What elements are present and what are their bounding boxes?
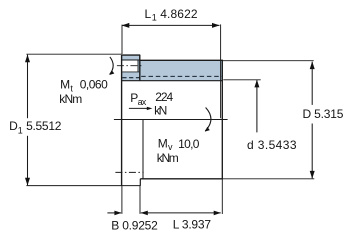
svg-text:kNm: kNm (157, 151, 179, 165)
svg-text:d 3.5433: d 3.5433 (247, 138, 297, 152)
svg-text:M: M (60, 78, 70, 92)
svg-text:0,060: 0,060 (80, 78, 108, 92)
svg-text:1: 1 (18, 126, 23, 136)
svg-text:L: L (145, 7, 152, 21)
svg-text:kNm: kNm (59, 92, 82, 106)
svg-text:10,0: 10,0 (178, 137, 200, 151)
svg-text:M: M (158, 137, 168, 151)
svg-text:D: D (9, 119, 18, 133)
svg-text:5.5512: 5.5512 (26, 119, 62, 133)
svg-text:D 5.315: D 5.315 (303, 107, 344, 121)
svg-text:ax: ax (138, 97, 147, 107)
svg-text:B 0.9252: B 0.9252 (111, 219, 158, 233)
svg-text:L 3.937: L 3.937 (173, 218, 212, 232)
svg-text:224: 224 (155, 90, 173, 104)
svg-text:1: 1 (152, 13, 157, 23)
svg-text:kN: kN (154, 104, 167, 118)
svg-text:4.8622: 4.8622 (160, 7, 198, 21)
